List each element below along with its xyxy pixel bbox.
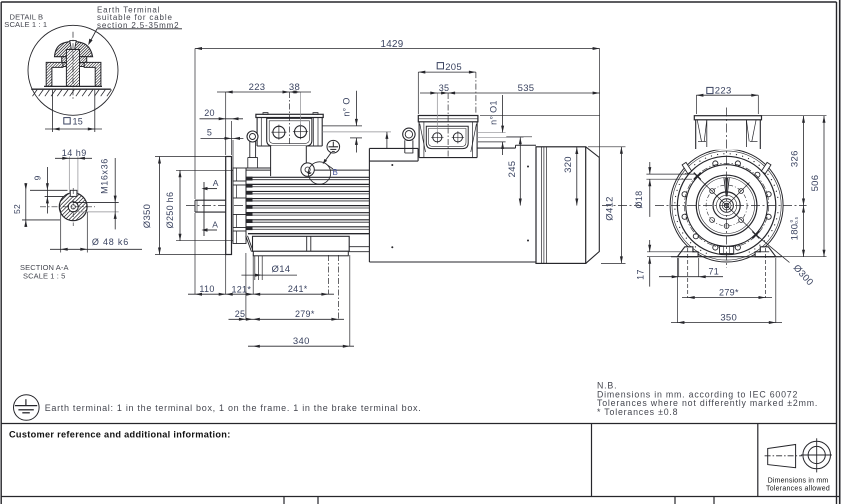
svg-text:0: 0 <box>789 219 794 222</box>
svg-text:223: 223 <box>715 86 732 97</box>
svg-text:25: 25 <box>235 309 246 319</box>
svg-text:245: 245 <box>507 161 518 178</box>
svg-text:B: B <box>332 168 338 177</box>
svg-text:326: 326 <box>789 150 800 167</box>
svg-text:350: 350 <box>720 313 737 324</box>
svg-text:Ø350: Ø350 <box>142 204 153 228</box>
svg-text:5: 5 <box>207 128 212 138</box>
svg-text:340: 340 <box>293 336 310 347</box>
svg-text:320: 320 <box>563 156 574 173</box>
svg-text:Ø250 h6: Ø250 h6 <box>165 192 175 229</box>
svg-text:17: 17 <box>635 269 645 280</box>
svg-text:15: 15 <box>73 117 84 127</box>
svg-text:279*: 279* <box>719 288 739 298</box>
svg-text:38: 38 <box>289 82 300 93</box>
svg-text:Dimensions in mm: Dimensions in mm <box>768 478 829 485</box>
svg-text:* Tolerances ±0.8: * Tolerances ±0.8 <box>597 407 678 417</box>
svg-text:223: 223 <box>249 82 266 93</box>
svg-text:110: 110 <box>199 284 214 294</box>
svg-text:9: 9 <box>33 175 43 180</box>
svg-text:A: A <box>212 220 218 230</box>
svg-text:Ø14: Ø14 <box>272 264 291 275</box>
svg-text:Earth terminal: 1 in the termi: Earth terminal: 1 in the terminal box, 1… <box>45 403 422 413</box>
svg-text:n° O1: n° O1 <box>489 100 499 125</box>
svg-text:A: A <box>213 178 219 188</box>
svg-text:20: 20 <box>204 108 215 118</box>
svg-text:535: 535 <box>518 83 535 94</box>
svg-text:section 2.5-35mm2: section 2.5-35mm2 <box>97 21 179 30</box>
svg-text:52: 52 <box>12 204 22 214</box>
svg-text:Tolerances allowed: Tolerances allowed <box>766 486 830 493</box>
svg-text:-0.5: -0.5 <box>794 216 799 225</box>
svg-text:205: 205 <box>445 62 462 73</box>
svg-text:14 h9: 14 h9 <box>62 148 87 158</box>
svg-text:Customer reference and additio: Customer reference and additional inform… <box>9 429 231 439</box>
svg-text:506: 506 <box>810 175 821 192</box>
svg-text:241*: 241* <box>288 284 308 294</box>
svg-text:Ø412: Ø412 <box>604 196 615 220</box>
svg-text:SCALE 1 : 1: SCALE 1 : 1 <box>4 20 47 29</box>
svg-text:SCALE 1 : 5: SCALE 1 : 5 <box>23 271 65 280</box>
svg-text:1429: 1429 <box>381 39 404 50</box>
svg-text:71: 71 <box>708 267 719 277</box>
svg-text:121*: 121* <box>231 285 251 295</box>
svg-text:35: 35 <box>439 83 450 93</box>
svg-text:Ø 48 k6: Ø 48 k6 <box>92 237 129 247</box>
svg-text:279*: 279* <box>295 309 315 319</box>
svg-text:M16x36: M16x36 <box>100 158 110 194</box>
svg-text:Ø18: Ø18 <box>634 191 644 209</box>
svg-text:n° O: n° O <box>341 97 351 116</box>
